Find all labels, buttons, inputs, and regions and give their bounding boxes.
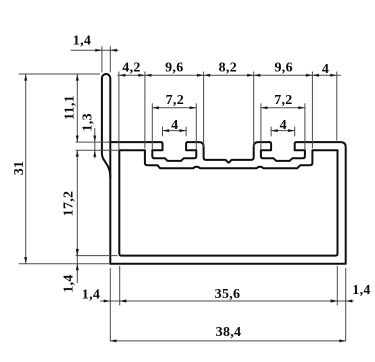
T-slot 2 interior (261, 142, 305, 161)
arrows 35,6 (120, 300, 127, 303)
svg-text:1,4: 1,4 (352, 283, 370, 298)
arrows 11,1 (76, 74, 79, 81)
arrow pair segment 5 (312, 74, 319, 77)
extension line opening left (270, 127, 272, 137)
svg-text:7,2: 7,2 (274, 93, 292, 108)
dim line 7,2 slot2 (261, 107, 305, 109)
dim line 1,4 bottom wall (76, 247, 78, 283)
extension line cavity right (304, 103, 306, 150)
extension line cavity left (151, 103, 153, 150)
extension line cavity left (260, 103, 262, 150)
extension line pocket2 right (311, 72, 313, 149)
extension line fin left face (101, 46, 103, 72)
svg-text:35,6: 35,6 (215, 287, 241, 302)
extension line opening left (162, 127, 164, 137)
dim line 38,4 (110, 340, 345, 342)
dim line 11,1 (76, 74, 78, 142)
ext fin top (19, 73, 100, 75)
svg-text:31: 31 (12, 161, 27, 176)
svg-text:1,4: 1,4 (62, 274, 77, 292)
dim line 31 (25, 74, 27, 264)
arrow pair segment 1 (119, 74, 126, 77)
dim line 1,3 (extended) (94, 128, 96, 158)
top chain dimension line (117, 74, 341, 76)
fin left face with flare curve (102, 78, 110, 177)
arrow pair segment 2 (145, 74, 152, 77)
svg-text:11,1: 11,1 (62, 95, 77, 120)
inner boundary path (119, 150, 337, 255)
svg-text:38,4: 38,4 (216, 325, 242, 340)
dim line 17,2 (76, 150, 78, 255)
arrows 4 (163, 129, 170, 132)
svg-text:4: 4 (280, 118, 287, 133)
extension line outer-right corner (345, 268, 347, 341)
svg-text:8,2: 8,2 (219, 61, 237, 76)
extension line fin right face (109, 46, 111, 72)
arrows 7,2 (152, 106, 159, 109)
svg-text:1,3: 1,3 (81, 113, 96, 131)
svg-text:9,6: 9,6 (165, 61, 183, 76)
arrows 17,2 (76, 150, 79, 157)
dim line 4 (slot opening) (163, 130, 187, 132)
svg-text:4: 4 (171, 118, 178, 133)
svg-text:1,4: 1,4 (82, 288, 100, 303)
extension line inner-left corner (119, 266, 121, 305)
svg-text:9,6: 9,6 (274, 61, 292, 76)
extension line pocket2 left rim (253, 72, 255, 148)
arrows 1,4 wall (outside) (76, 249, 79, 256)
svg-text:7,2: 7,2 (166, 93, 184, 108)
extension line pocket1 right rim (203, 72, 205, 148)
svg-text:4: 4 (322, 62, 329, 77)
extension line inner-left wall (118, 72, 120, 150)
arrows 1,3 (outside) (93, 136, 96, 143)
extension line outer-left corner (109, 268, 111, 341)
arrows 1,4 left (outside) (104, 300, 111, 303)
extension line cavity right (195, 103, 197, 150)
arrows 1,4 fin (outside) (95, 49, 102, 52)
ext flange top left (76, 141, 110, 143)
arrows 7,2 (261, 106, 268, 109)
arrows 38,4 (110, 339, 117, 342)
dim line 4 (slot opening) (271, 130, 295, 132)
T-slot 1 interior (152, 142, 196, 161)
ext flange bottom left (76, 149, 119, 151)
extension line opening right (185, 127, 187, 137)
bottom chain dimension line (100, 300, 354, 302)
dim line 1,4 fin (71, 49, 119, 51)
extension line inner-right wall (336, 72, 338, 141)
extension line pocket1 left (144, 72, 146, 149)
arrows 31 (24, 74, 27, 81)
arrows 4 (271, 129, 278, 132)
fin rounded cap and left outer wall of box (102, 74, 110, 264)
svg-text:1,4: 1,4 (73, 33, 91, 48)
arrows 1,4 right (outside) (331, 300, 338, 303)
flange top left segment (110, 141, 161, 143)
ext outer bottom (19, 263, 109, 265)
extension line inner-right corner (336, 266, 338, 305)
svg-text:4,2: 4,2 (122, 61, 140, 76)
dim line 7,2 slot1 (152, 107, 196, 109)
arrow pair segment 3 (204, 74, 211, 77)
arrow pair segment 4 (254, 74, 261, 77)
flange top right, outer right wall, outer bottom (110, 142, 345, 264)
flange + center channel with V-notch (188, 142, 270, 163)
svg-text:17,2: 17,2 (62, 191, 77, 217)
extension line opening right (294, 127, 296, 137)
ext inner bottom left (76, 255, 118, 257)
